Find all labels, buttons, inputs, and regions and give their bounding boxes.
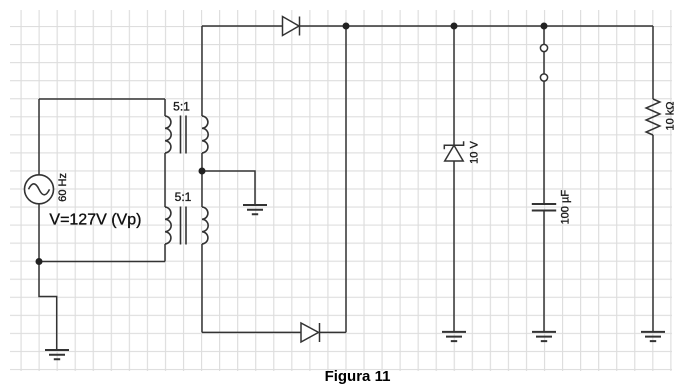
wire bottom rail left segment (202, 331, 301, 333)
wire primary middle (164, 153, 166, 207)
svg-text:60 Hz: 60 Hz (57, 173, 69, 202)
junction node center tap (199, 168, 206, 175)
svg-text:V=127V (Vp): V=127V (Vp) (49, 212, 141, 229)
terminal circle upper (540, 44, 547, 51)
junction node capacitor (541, 23, 548, 30)
wire top rail left segment (202, 25, 283, 27)
svg-text:100 µF: 100 µF (560, 190, 572, 225)
AC source V1 (25, 175, 54, 204)
junction node source bottom (36, 258, 43, 265)
wire resistor branch bottom (652, 135, 654, 332)
wire output vertical (345, 26, 347, 332)
wire to left ground (39, 262, 57, 351)
svg-text:5:1: 5:1 (175, 190, 192, 204)
wire center tap (202, 171, 255, 205)
wire top rail right segment (300, 25, 654, 27)
ground center tap (243, 205, 267, 214)
wire resistor branch top (652, 26, 654, 99)
transformer T2 secondary coil (202, 207, 208, 244)
wire primary bottom (39, 244, 165, 262)
diode D1 top (283, 17, 300, 36)
svg-text:5:1: 5:1 (173, 100, 190, 114)
wire primary top (39, 99, 165, 175)
wire bottom rail right segment (320, 331, 347, 333)
ground capacitor (532, 332, 556, 341)
junction node zener (451, 23, 458, 30)
transformer T1 primary coil (165, 116, 171, 153)
wire secondary top (201, 26, 203, 116)
terminal circle lower (540, 74, 547, 81)
wire capacitor branch bottom (543, 211, 545, 332)
wire secondary bottom (201, 244, 203, 332)
wire zener branch bottom (453, 161, 455, 332)
transformer T1 secondary coil (202, 116, 208, 153)
svg-text:Figura 11: Figura 11 (325, 368, 391, 385)
svg-text:10 kΩ: 10 kΩ (665, 101, 677, 130)
capacitor C1 (532, 204, 556, 211)
ground resistor (641, 332, 665, 341)
wire secondary middle (201, 153, 203, 207)
svg-text:10 V: 10 V (469, 141, 481, 164)
wire source bottom (38, 204, 40, 262)
wire zener branch top (453, 26, 455, 145)
resistor R1 (646, 99, 660, 135)
ground zener (442, 332, 466, 341)
transformer T1 core (181, 116, 187, 154)
transformer T2 core (181, 207, 187, 245)
diode D2 bottom (301, 323, 320, 342)
transformer T2 primary coil (165, 207, 171, 244)
zener diode D3 (444, 141, 463, 161)
ground left (45, 350, 69, 359)
wire capacitor branch top (543, 26, 545, 204)
junction node output (343, 23, 350, 30)
